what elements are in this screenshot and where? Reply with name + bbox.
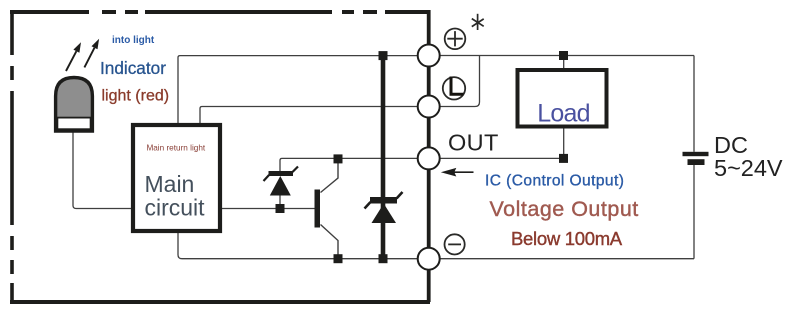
asterisk marker: [472, 14, 484, 30]
junction at ZD2 top on +V rail: [379, 51, 388, 60]
wire: +V rail right of terminal to battery: [440, 55, 694, 57]
junction at emitter on 0V line: [334, 254, 343, 263]
svg-text:OUT: OUT: [448, 130, 499, 156]
svg-text:Below 100mA: Below 100mA: [511, 228, 623, 249]
junction at load bottom on OUT line: [559, 154, 568, 163]
transistor Q1 collector lead: [321, 162, 339, 193]
load box: [518, 70, 607, 127]
junction at ZD1 bottom on base line: [276, 204, 285, 213]
transistor Q1 base bar: [315, 190, 321, 228]
wire: base drive from main circuit to transistor Q1: [222, 208, 315, 210]
L-in-circle symbol: [443, 77, 465, 100]
junction at collector on OUT line: [334, 154, 343, 163]
IC output pointer arrow: [441, 168, 474, 177]
wire: +V riser from main circuit top to +V rail: [178, 56, 417, 123]
svg-text:circuit: circuit: [145, 195, 206, 221]
zener diode ZD2 wings: [365, 192, 403, 209]
junction at ZD2 bottom on 0V line: [379, 254, 388, 263]
zener diode ZD2 body: [370, 197, 397, 223]
junction at load top on +V rail: [559, 51, 568, 60]
wire: branch from +V rail down to L terminal: [440, 56, 480, 107]
svg-text:IC (Control Output): IC (Control Output): [485, 172, 624, 189]
terminal L: [418, 96, 440, 118]
enclosure boundary, bottom solid: [10, 300, 430, 304]
wire: indicator LED lead down to main circuit: [73, 131, 131, 209]
svg-text:Load: Load: [537, 100, 589, 128]
battery (DC source): [683, 152, 709, 165]
wire: 0V line right of terminal to battery negative: [440, 258, 694, 260]
wire: 0V line from main circuit bottom to 0V terminal: [178, 233, 417, 259]
wire: zener ZD1 bottom lead: [279, 195, 281, 209]
wire: OUT line from zener ZD1 top to OUT terminal: [280, 158, 417, 171]
terminal 0V: [418, 248, 440, 270]
transistor Q1 emitter lead: [321, 225, 339, 256]
zener diode ZD1 body: [269, 171, 294, 196]
wire: load top lead: [563, 56, 565, 69]
svg-text:Main return light: Main return light: [146, 143, 205, 152]
enclosure boundary, left side: [10, 10, 14, 304]
terminal +V: [418, 45, 440, 67]
wire: load bottom lead: [563, 129, 565, 159]
light emission arrow 2: [84, 39, 99, 68]
protection zener ZD2 thick branch: [381, 56, 386, 259]
zener diode ZD1 wings: [264, 167, 299, 182]
plus-in-circle symbol: [445, 29, 466, 50]
wire: OUT terminal to load bottom junction: [440, 157, 564, 159]
wire: L riser from main circuit top to L terminal: [200, 107, 417, 124]
indicator LED symbol: [56, 78, 93, 132]
main circuit block: [133, 125, 220, 231]
terminal OUT: [418, 147, 440, 169]
wire: battery negative lead (right vertical): [693, 165, 695, 259]
minus-in-circle symbol: [445, 234, 465, 254]
svg-text:Voltage Output: Voltage Output: [490, 197, 639, 221]
svg-text:Main: Main: [145, 171, 195, 197]
svg-text:5~24V: 5~24V: [714, 155, 783, 181]
wire: battery positive lead (right vertical): [693, 56, 695, 152]
light emission arrow 1: [66, 42, 81, 71]
svg-text:light (red): light (red): [102, 88, 170, 105]
module right edge (terminal strip line): [427, 10, 431, 302]
svg-text:Indicator: Indicator: [100, 58, 166, 78]
enclosure boundary (dash-dot chain line), top: [10, 10, 430, 14]
svg-text:into light: into light: [112, 35, 155, 46]
